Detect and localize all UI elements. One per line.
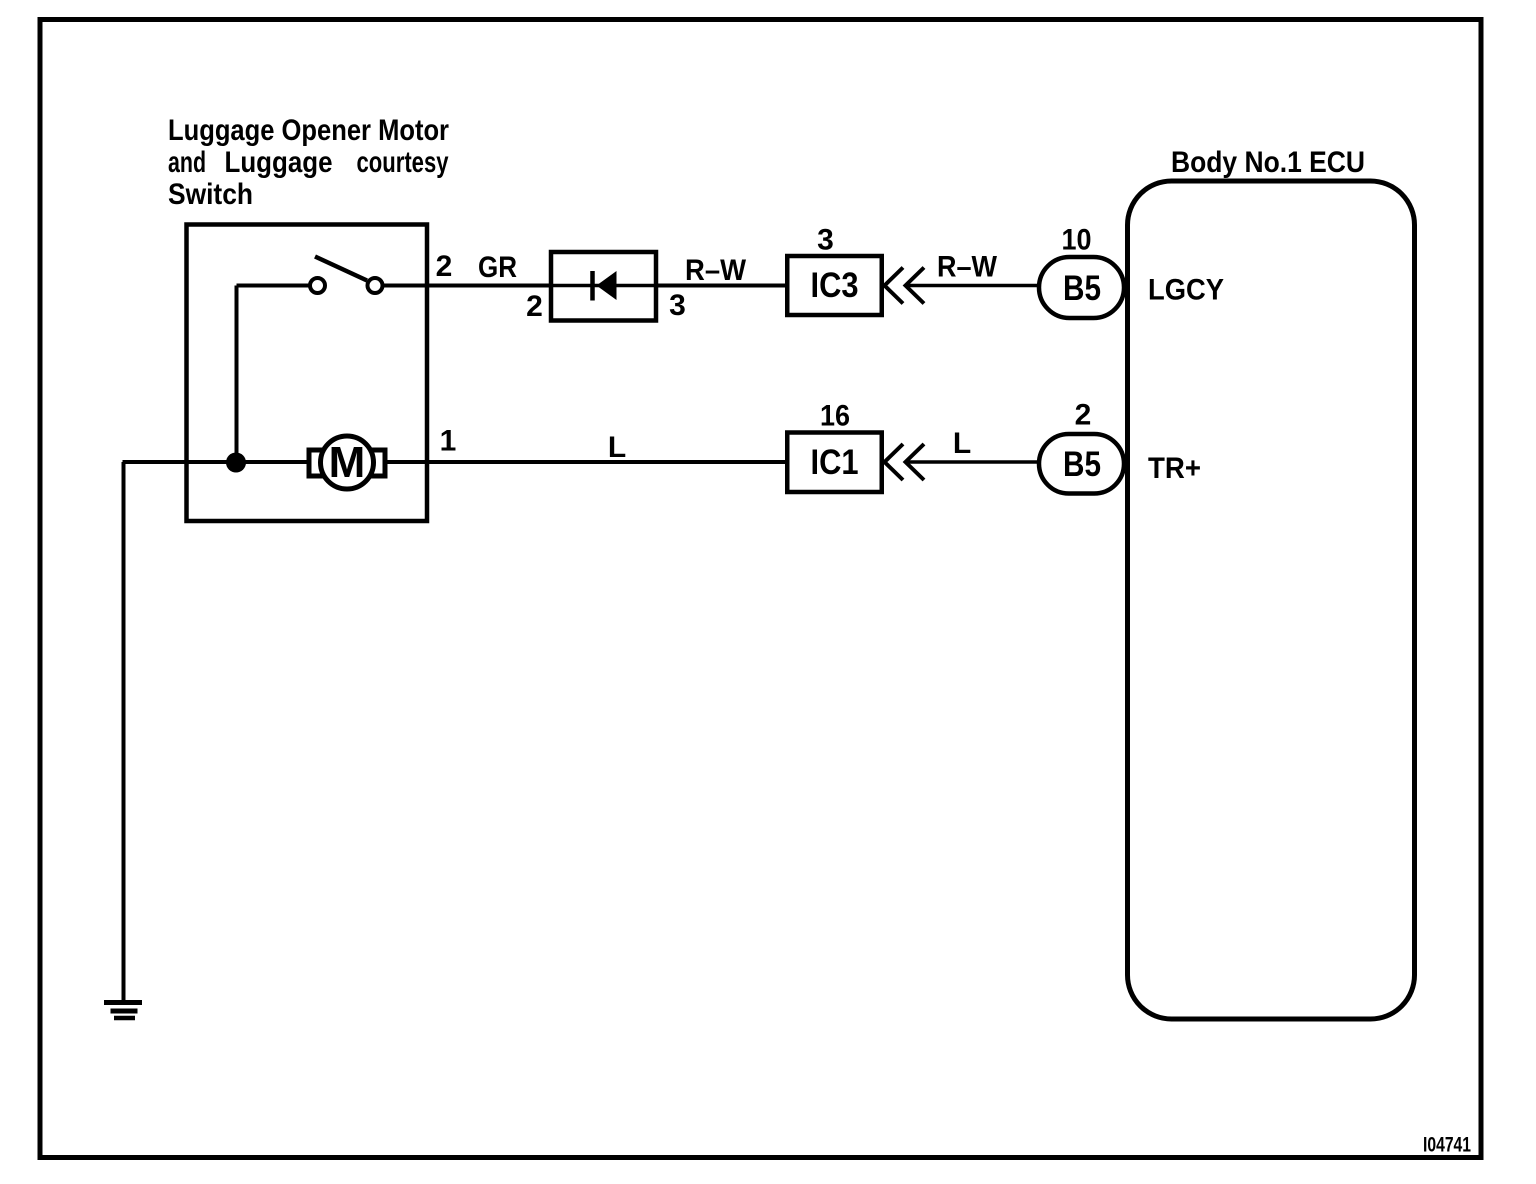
wire: B5 to chevrons row2 [906, 460, 1041, 464]
svg-text:courtesy: courtesy [357, 146, 449, 179]
switch contact right [368, 278, 383, 293]
wire through diode box [553, 284, 655, 288]
svg-text:I04741: I04741 [1423, 1134, 1471, 1157]
wire: ground drop [122, 462, 126, 1002]
svg-text:3: 3 [669, 289, 686, 322]
junction dot [226, 453, 246, 473]
svg-text:GR: GR [478, 251, 517, 284]
svg-text:1: 1 [440, 425, 457, 458]
wire: B5 to chevrons [906, 284, 1041, 288]
svg-text:B5: B5 [1063, 445, 1101, 484]
svg-text:LGCY: LGCY [1148, 274, 1224, 307]
component box: luggage opener motor and courtesy switch [187, 225, 428, 522]
svg-text:2: 2 [436, 250, 453, 283]
wire: switch left contact to left drop [237, 284, 313, 288]
svg-text:R–W: R–W [685, 254, 747, 287]
diode triangle [597, 271, 617, 300]
connector IC1 box [787, 433, 882, 493]
svg-text:Luggage: Luggage [225, 146, 333, 179]
motor circle [321, 436, 374, 489]
wire: diode to IC3 [654, 284, 787, 288]
svg-text:L: L [608, 431, 626, 464]
Body No.1 ECU rounded box [1128, 181, 1415, 1019]
svg-text:Switch: Switch [168, 178, 253, 211]
svg-text:3: 3 [817, 224, 834, 257]
chevron arrows into IC3 [885, 268, 904, 304]
switch lever [315, 257, 367, 281]
svg-text:10: 10 [1062, 224, 1092, 257]
wire: vertical drop to junction [235, 286, 239, 463]
svg-text:B5: B5 [1063, 269, 1101, 308]
motor M1: brackets [309, 450, 327, 476]
switch contact left [310, 278, 325, 293]
connector B5 (pin 2) stadium [1039, 434, 1124, 494]
svg-text:IC3: IC3 [811, 266, 859, 305]
svg-text:Luggage Opener Motor: Luggage Opener Motor [168, 114, 449, 147]
wire: switch right contact to diode box [380, 284, 553, 288]
svg-text:IC1: IC1 [811, 443, 859, 482]
ground [104, 1003, 142, 1019]
chevron arrows into IC1 [885, 444, 904, 480]
svg-text:M: M [329, 438, 366, 487]
wire: left segment to motor row [123, 460, 311, 464]
svg-text:2: 2 [526, 290, 543, 323]
connector IC3 box [787, 256, 882, 315]
diode cathode bar [590, 271, 595, 301]
svg-text:L: L [953, 427, 971, 460]
svg-text:16: 16 [820, 400, 850, 433]
svg-text:R–W: R–W [937, 251, 998, 284]
diode box [551, 252, 656, 321]
wire: motor to IC1 [385, 460, 787, 464]
svg-text:2: 2 [1075, 399, 1092, 432]
title: Luggage Opener Motor and Luggage courtesy Switch [168, 114, 449, 211]
svg-text:Body No.1 ECU: Body No.1 ECU [1171, 146, 1365, 179]
svg-text:TR+: TR+ [1148, 452, 1201, 485]
svg-text:and: and [168, 146, 206, 179]
connector B5 (pin 10) stadium [1039, 257, 1124, 318]
